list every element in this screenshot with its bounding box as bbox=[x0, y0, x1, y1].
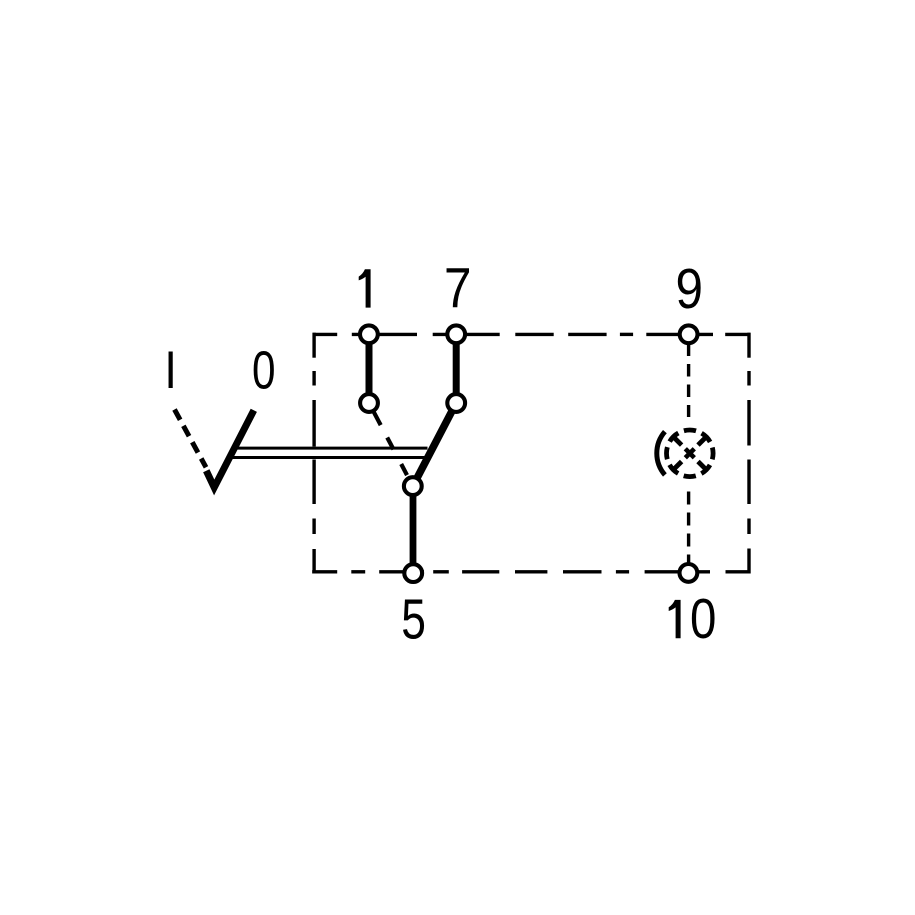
terminal 9 circle bbox=[680, 325, 698, 343]
actuator lever position I (dashed) bbox=[175, 410, 207, 468]
wire open contact position dash 3 bbox=[401, 464, 407, 475]
lamp L1 (dashed illumination lamp) bbox=[657, 430, 713, 477]
pivot contact circle bbox=[404, 477, 422, 495]
terminal 1 circle bbox=[360, 325, 378, 343]
contact end circle below terminal 1 bbox=[360, 394, 378, 412]
terminal 10 circle bbox=[680, 564, 698, 582]
wire fixed contact stub terminal 1 to contact bbox=[366, 336, 373, 397]
lamp reflector arc bbox=[657, 432, 665, 475]
contact end circle below terminal 7 bbox=[447, 394, 465, 412]
actuator lever position 0 (thick checkmark) bbox=[206, 410, 254, 487]
lamp center x stroke 1 bbox=[685, 449, 694, 458]
switch body dashed border right side bbox=[747, 333, 750, 574]
wire fixed contact stub terminal 7 to contact bbox=[453, 336, 460, 397]
label terminal 10 digit 1 (custom glyph) bbox=[669, 600, 681, 638]
switch body dashed border left side bbox=[312, 333, 315, 574]
switch body dashed border top side bbox=[313, 333, 751, 336]
terminal 7 circle bbox=[447, 325, 465, 343]
lamp center x stroke 2 bbox=[685, 449, 694, 458]
svg-text:5: 5 bbox=[401, 587, 426, 650]
wire dashed lamp to terminal 10 bbox=[687, 492, 690, 563]
svg-text:I: I bbox=[164, 341, 177, 400]
lamp spoke NE bbox=[698, 436, 707, 445]
svg-text:7: 7 bbox=[444, 258, 472, 321]
mechanical linkage double line upper bbox=[238, 447, 428, 450]
wire moving contact bridge closed (contact 7 to pivot) bbox=[417, 411, 452, 478]
lamp spoke NW bbox=[673, 436, 682, 445]
switch body dashed border bottom side bbox=[312, 570, 749, 573]
wire open contact position dash 1 (contact 1 toward pivot) bbox=[372, 409, 380, 425]
lamp spoke SE bbox=[698, 462, 707, 471]
terminal 5 circle bbox=[404, 564, 422, 582]
label terminal 1 (custom glyph) bbox=[359, 269, 371, 307]
svg-text:0: 0 bbox=[252, 341, 276, 401]
wire dashed terminal 9 to lamp bbox=[687, 344, 690, 418]
lamp dashed circle bbox=[667, 430, 714, 477]
lamp spoke SW bbox=[673, 462, 682, 471]
svg-text:9: 9 bbox=[675, 258, 703, 321]
mechanical linkage double line lower bbox=[233, 456, 427, 459]
wire pivot to terminal 5 bbox=[410, 492, 417, 570]
svg-text:0: 0 bbox=[690, 589, 716, 652]
wire open contact position dash 2 bbox=[387, 438, 393, 450]
